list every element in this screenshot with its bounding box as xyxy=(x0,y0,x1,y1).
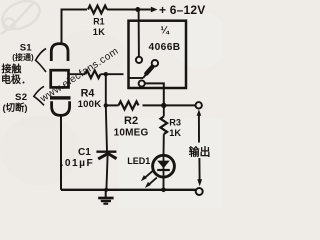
label R3 xyxy=(169,117,181,127)
brace for S2 xyxy=(34,86,44,105)
wire: top-left vertical from rail to S1 xyxy=(61,10,63,44)
wire: rail from R2 to terminal xyxy=(143,104,196,106)
resistor R1 xyxy=(88,6,107,14)
label +6-12V xyxy=(159,3,205,17)
resistor R2 xyxy=(119,101,139,109)
wire: S2 down to ground rail xyxy=(60,115,62,189)
junction dot on R4 wire xyxy=(104,72,108,76)
scan mottling patches xyxy=(0,12,230,185)
wire: C1 bottom to ground rail xyxy=(106,156,107,190)
capacitor C1 top plate xyxy=(96,151,116,153)
wire: R3 to LED1 xyxy=(163,134,165,155)
svg-text:¼: ¼ xyxy=(161,26,170,37)
label S2 xyxy=(15,92,27,103)
LED light arrow 1 xyxy=(141,171,153,181)
label jiechu xyxy=(2,63,22,76)
pin circle control (U1) xyxy=(136,57,142,63)
junction dot rail left xyxy=(104,103,108,107)
capacitor C1 curved plate xyxy=(98,154,116,159)
label R4 xyxy=(81,88,95,100)
touch plate S1 dome xyxy=(51,44,68,61)
node A junction dot on top rail xyxy=(135,7,140,12)
paper background xyxy=(0,0,223,208)
wire: top rail right segment xyxy=(107,9,151,11)
svg-text:1K: 1K xyxy=(169,128,181,138)
LED1 triangle xyxy=(157,161,170,169)
wire: rail R2 left stub xyxy=(106,104,119,106)
ground symbol xyxy=(98,190,113,204)
arrow to supply xyxy=(151,7,158,13)
touch plate S2 cup xyxy=(52,101,70,115)
wire: R4 to U1 box xyxy=(100,73,123,75)
brace for S1 xyxy=(36,49,46,73)
label 1K (R1) xyxy=(93,27,106,37)
svg-text:LED1: LED1 xyxy=(127,156,150,166)
label .01uF xyxy=(61,158,95,169)
svg-text:.01µF: .01µF xyxy=(61,158,95,169)
label (qieduan) xyxy=(3,102,28,113)
op IC U1 box 1/4 4066B xyxy=(129,21,187,88)
ground rail xyxy=(61,189,196,191)
svg-text:R2: R2 xyxy=(124,115,138,127)
switch lever (U1) xyxy=(143,67,152,78)
switch input stub inside U1 xyxy=(129,77,144,79)
label R1 xyxy=(93,16,104,26)
svg-text:1K: 1K xyxy=(93,27,106,37)
LED1 circle xyxy=(153,155,175,177)
junction dot at R3 top xyxy=(161,103,166,108)
wire: top rail left segment xyxy=(61,9,88,11)
svg-text:10MEG: 10MEG xyxy=(114,127,149,138)
scanner swirl artifact top-left xyxy=(0,0,44,34)
output terminal bottom circle xyxy=(196,188,203,195)
wire: R4 junction down to rail xyxy=(105,74,107,105)
wire: S1 square to R4 xyxy=(69,73,86,75)
label 1/4 xyxy=(161,26,170,37)
output down arrowhead xyxy=(197,179,202,186)
output up arrowhead xyxy=(197,109,202,116)
label 4066B xyxy=(149,42,181,53)
svg-text:100K: 100K xyxy=(78,99,102,110)
watermark www.elecfans.com xyxy=(38,46,121,105)
pin circle pole (U1) xyxy=(139,80,145,86)
junction dot C1-ground xyxy=(104,188,108,192)
svg-text:4066B: 4066B xyxy=(149,42,181,53)
wire: LED1 to ground rail xyxy=(163,177,165,190)
label LED1 xyxy=(127,156,150,166)
wire: control pin from node A into U1 xyxy=(138,10,140,57)
output terminal top circle xyxy=(196,102,202,108)
svg-text:输出: 输出 xyxy=(189,144,211,158)
svg-text:R4: R4 xyxy=(81,88,95,100)
pin circle contact (U1) xyxy=(152,60,158,66)
svg-text:电极: 电极 xyxy=(1,73,22,86)
svg-text:S1: S1 xyxy=(20,42,32,53)
label shuchu xyxy=(189,144,211,158)
svg-text:+ 6–12V: + 6–12V xyxy=(159,3,205,17)
LED1 cathode bar xyxy=(157,169,170,171)
svg-text:S2: S2 xyxy=(15,92,27,103)
output line lower xyxy=(198,158,200,180)
label dianji xyxy=(1,73,25,86)
label 100K xyxy=(78,99,102,110)
label C1 xyxy=(78,147,91,158)
svg-text:R1: R1 xyxy=(93,16,104,26)
wire: R3 top stub xyxy=(163,105,165,116)
wire: C1 column top xyxy=(106,105,107,151)
svg-text:C1: C1 xyxy=(78,147,91,158)
resistor R4 xyxy=(85,70,100,78)
label S1 xyxy=(20,42,32,53)
svg-text:(切断): (切断) xyxy=(3,102,28,113)
wire: U1 pole output down to output rail xyxy=(145,83,164,105)
label (jietong) xyxy=(12,52,34,62)
label 1K (R3) xyxy=(169,128,181,138)
resistor R3 xyxy=(161,117,168,135)
touch plate S1 square xyxy=(51,70,69,87)
label R2 xyxy=(124,115,138,127)
touch plate S2 bar xyxy=(50,96,71,99)
svg-text:(接通): (接通) xyxy=(12,52,34,62)
junction dot LED-ground xyxy=(161,188,166,193)
svg-text:R3: R3 xyxy=(169,117,181,127)
label 10MEG xyxy=(114,127,149,138)
svg-text:接触: 接触 xyxy=(2,63,22,76)
output line upper xyxy=(198,115,200,143)
LED1 lead inside xyxy=(163,156,165,177)
LED light arrow 2 xyxy=(145,178,157,188)
